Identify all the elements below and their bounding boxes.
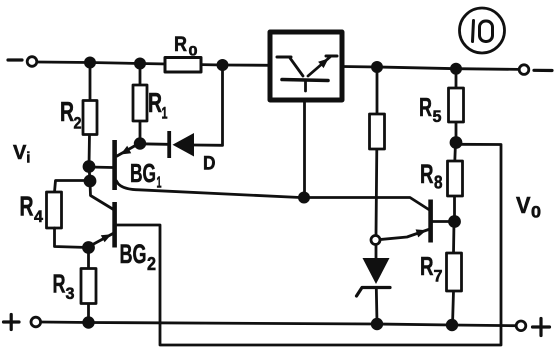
wire R4 top	[55, 181, 91, 193]
wire collector right transistor	[433, 220, 455, 223]
wire emitter BG2	[89, 234, 113, 247]
box inner right diagonal	[308, 57, 330, 76]
box inner left tick	[277, 56, 291, 59]
svg-text:R: R	[148, 87, 162, 118]
wire node B to base BG2	[90, 182, 114, 210]
svg-text:R: R	[419, 92, 432, 122]
node bottom R7	[447, 320, 457, 330]
wire box bottom pin	[303, 100, 306, 197]
wire top rail right	[342, 67, 519, 70]
box inner left diagonal	[290, 58, 303, 76]
node top rail R2	[85, 58, 94, 67]
diode D cathode bar	[167, 131, 171, 158]
svg-text:8: 8	[434, 173, 443, 193]
zener diode lead top	[375, 245, 378, 259]
zener lead bottom	[375, 288, 379, 323]
wire emitter right transistor	[380, 230, 429, 240]
node bottom R3	[84, 318, 94, 328]
wire R5 leads	[455, 69, 458, 88]
zener triangle	[363, 258, 390, 284]
transistor BG2	[112, 202, 117, 248]
wire collector BG2 loop	[117, 144, 502, 345]
node R8/R7/collector	[450, 217, 460, 227]
svg-text:R: R	[174, 33, 187, 56]
svg-text:1: 1	[162, 104, 168, 123]
figure number circle 10	[460, 8, 505, 53]
wire R2 leads	[89, 63, 92, 102]
zener bar	[357, 288, 391, 297]
wire R3 leads	[87, 248, 90, 269]
svg-text:1: 1	[157, 175, 162, 192]
node top rail R0/D	[218, 60, 227, 69]
wire R1 leads	[139, 64, 142, 86]
node R1/D/BG1	[135, 139, 145, 149]
resistor R1	[133, 85, 147, 121]
resistor R7	[447, 253, 462, 291]
wire node A to node B	[89, 167, 90, 182]
node top rail mid resistor	[372, 62, 381, 71]
box inner right tick	[326, 55, 337, 58]
svg-text:7: 7	[434, 267, 443, 286]
svg-text:R: R	[60, 96, 74, 127]
box component	[270, 32, 342, 100]
diode D triangle	[173, 133, 195, 157]
wire collector BG1 long	[117, 181, 430, 210]
input terminal top-left	[27, 57, 37, 67]
svg-text:BG: BG	[130, 158, 156, 188]
plus bottom-left	[4, 320, 20, 323]
svg-text:0: 0	[189, 43, 198, 59]
wire emitter BG1	[117, 144, 138, 156]
svg-text:4: 4	[34, 207, 44, 226]
node top rail R5	[451, 64, 460, 73]
svg-text:D: D	[203, 154, 216, 175]
node box/collector wire	[299, 193, 308, 202]
resistor R8	[448, 161, 463, 196]
wire R8 leads	[453, 143, 457, 162]
wire R4 bottom	[55, 228, 89, 248]
transistor BG1	[112, 140, 117, 190]
terminal bottom-left	[31, 317, 41, 327]
resistor mid	[370, 114, 385, 149]
svg-text:V: V	[516, 192, 531, 218]
svg-text:BG: BG	[120, 239, 147, 269]
svg-text:5: 5	[433, 107, 442, 126]
resistor R4	[47, 192, 62, 228]
label 10 digit 0	[480, 21, 493, 42]
node emitter circle	[371, 236, 380, 245]
svg-text:R: R	[420, 159, 434, 189]
box inner bottom stub	[304, 81, 307, 91]
svg-text:2: 2	[147, 254, 156, 274]
diode D wire right	[194, 65, 223, 145]
svg-text:i: i	[26, 150, 30, 167]
wire mid resistor leads	[376, 67, 379, 114]
plus bottom-right	[533, 325, 550, 328]
wire base BG1	[89, 166, 113, 169]
output terminal top-right	[519, 65, 529, 75]
svg-text:0: 0	[531, 203, 541, 222]
node B	[85, 176, 95, 186]
svg-text:R: R	[53, 269, 66, 299]
resistor R3	[81, 269, 96, 304]
transistor right	[428, 200, 433, 243]
bottom rail	[41, 322, 516, 326]
node R4/R3/BG2 emitter	[84, 243, 94, 253]
wire top rail	[38, 62, 271, 65]
node R5/R8/loop	[451, 138, 461, 148]
wire R7 leads	[452, 222, 455, 254]
svg-text:3: 3	[66, 284, 75, 303]
box inner bar	[282, 80, 328, 81]
diode D wire left	[140, 142, 167, 145]
svg-text:R: R	[20, 191, 34, 222]
node bottom zener	[372, 319, 382, 329]
resistor R5	[449, 88, 464, 122]
svg-text:2: 2	[74, 114, 82, 133]
resistor R0	[165, 58, 201, 73]
minus sign top-right	[534, 69, 552, 72]
terminal bottom-right	[516, 321, 526, 331]
node A base BG1	[84, 162, 94, 172]
node top rail R1	[135, 59, 144, 68]
svg-text:V: V	[13, 142, 27, 164]
svg-text:R: R	[420, 251, 434, 281]
minus sign top-left	[8, 58, 22, 61]
label 10 digit 1	[473, 21, 474, 42]
resistor R2	[83, 101, 97, 135]
